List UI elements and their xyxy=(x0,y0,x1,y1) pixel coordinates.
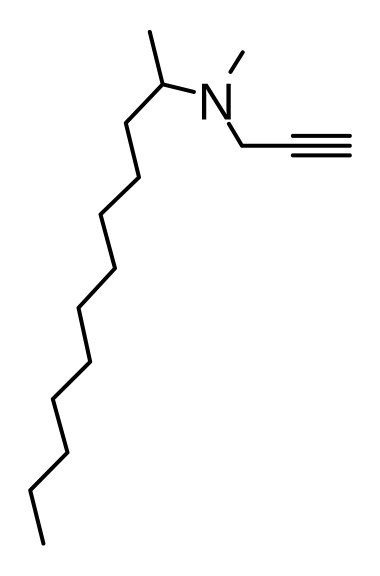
wire alkyne triple bond upper line xyxy=(293,134,350,138)
svg-text:N: N xyxy=(198,73,235,131)
wire alkyl chain C13 backbone with terminal methyl xyxy=(30,32,163,544)
wire bond N to methyl xyxy=(231,52,243,72)
wire bond N to propargyl CH2 and on to alkyne xyxy=(229,124,350,146)
wire alkyne triple bond lower line xyxy=(293,153,350,157)
wire bond CH to N xyxy=(163,84,194,92)
